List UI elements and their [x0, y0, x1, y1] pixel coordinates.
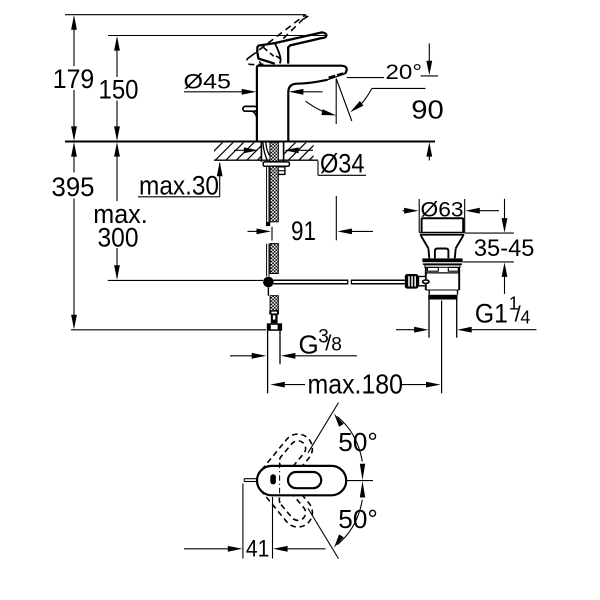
svg-text:50°: 50° — [338, 429, 378, 457]
svg-text:179: 179 — [53, 64, 95, 94]
svg-text:90: 90 — [411, 94, 444, 124]
svg-text:20°: 20° — [386, 60, 423, 84]
svg-text:41: 41 — [246, 536, 270, 563]
svg-text:50°: 50° — [338, 506, 378, 534]
svg-text:91: 91 — [291, 216, 316, 246]
svg-text:150: 150 — [99, 74, 139, 104]
svg-text:max.180: max.180 — [308, 369, 404, 400]
svg-text:Ø34: Ø34 — [320, 149, 365, 179]
svg-text:300: 300 — [98, 223, 139, 253]
svg-text:8: 8 — [331, 335, 342, 356]
svg-text:max.30: max.30 — [139, 171, 219, 201]
svg-text:Ø45: Ø45 — [184, 70, 232, 94]
svg-text:35-45: 35-45 — [474, 235, 535, 262]
svg-text:4: 4 — [520, 308, 530, 328]
svg-text:395: 395 — [52, 172, 95, 202]
svg-text:G1: G1 — [475, 299, 508, 329]
svg-text:G: G — [299, 330, 319, 360]
